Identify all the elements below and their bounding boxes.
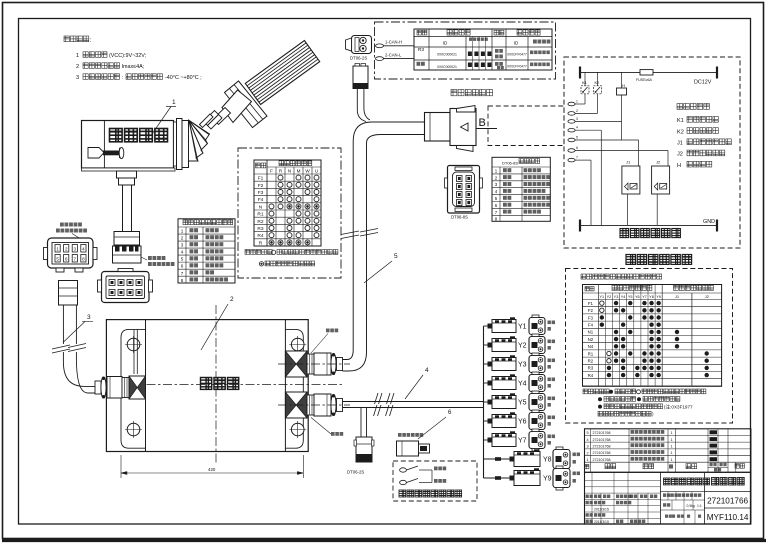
svg-text:3: 3 <box>181 243 184 248</box>
valve body title 电液换挡阀体 <box>626 255 692 265</box>
CAN stub wire 1-CAN-H <box>376 40 415 48</box>
BOM parts list table <box>585 429 751 473</box>
control box lower right connector <box>278 392 350 418</box>
svg-text:F4: F4 <box>588 323 594 328</box>
comm connector node B mark <box>476 117 497 129</box>
svg-text:Y7: Y7 <box>642 295 647 299</box>
leader label 1 for joystick <box>152 99 176 134</box>
leader label 6 for 4wd plug <box>418 410 452 439</box>
svg-text::: : <box>122 75 124 81</box>
svg-text:F1: F1 <box>258 176 264 182</box>
solenoid valve Y4 connector and coil <box>484 372 556 394</box>
svg-text:F3: F3 <box>588 315 594 320</box>
switch K1 brake input <box>581 72 589 104</box>
svg-text:7: 7 <box>181 271 184 276</box>
svg-text:R1: R1 <box>588 351 594 356</box>
terminal wiring to relays and ground <box>575 130 668 225</box>
buzzer H <box>617 72 627 140</box>
control box bottom dimension <box>121 455 303 478</box>
solenoid valve Y5 connector and coil <box>484 391 556 413</box>
svg-text:1: 1 <box>181 229 184 234</box>
control box left circular connector <box>95 376 146 399</box>
svg-text:4: 4 <box>181 250 184 255</box>
svg-text:Y1: Y1 <box>599 295 604 299</box>
svg-text:Y1: Y1 <box>518 324 527 331</box>
handle harness pin definition table <box>178 219 235 283</box>
handle output table footnotes <box>245 250 338 266</box>
DT06-2S lower connector <box>354 437 374 462</box>
handle output signal table <box>254 160 321 246</box>
svg-text:2: 2 <box>76 64 79 70</box>
svg-text:2011/3/15: 2011/3/15 <box>594 508 609 512</box>
svg-text:2: 2 <box>230 296 234 303</box>
connector tag note upper <box>311 329 338 354</box>
joystick neck cone <box>222 90 252 123</box>
diagnostic drop wire to DT06-2S lower <box>361 408 367 438</box>
svg-text:0.9kg: 0.9kg <box>687 504 695 508</box>
solenoid logic table <box>583 285 722 387</box>
svg-text:Y6: Y6 <box>518 419 527 426</box>
svg-text:1: 1 <box>576 100 578 104</box>
control box upper right connector <box>278 351 350 377</box>
svg-text:6: 6 <box>576 146 578 150</box>
solenoid valve Y9 connector and coil <box>484 466 581 490</box>
comm interface label 外接通讯接口 <box>451 90 493 96</box>
svg-text:3: 3 <box>76 75 79 81</box>
ground bus GND <box>580 219 717 231</box>
svg-text:Y7: Y7 <box>518 438 527 445</box>
title block texts <box>586 478 749 525</box>
svg-text:Y9: Y9 <box>656 295 661 299</box>
harness W2 vertical run <box>343 141 367 371</box>
svg-text:2011/3/15: 2011/3/15 <box>594 520 609 524</box>
svg-text:F2: F2 <box>258 183 264 189</box>
joystick mounting steps <box>117 171 137 185</box>
svg-text:3: 3 <box>586 445 588 449</box>
vehicle circuit title 外接整车电路 <box>620 229 681 238</box>
svg-text:DT06-2S: DT06-2S <box>350 56 367 61</box>
svg-text:R3: R3 <box>257 226 263 232</box>
svg-text:R4: R4 <box>588 373 594 378</box>
solenoid logic footnotes <box>583 389 706 417</box>
joystick body label text <box>110 129 168 142</box>
svg-text:0X0C000021: 0X0C000021 <box>437 65 457 69</box>
control box wire slot lines <box>134 330 137 374</box>
diagnostic cable wires down to junction <box>357 89 370 122</box>
svg-text:1: 1 <box>586 458 588 462</box>
svg-text:1: 1 <box>670 458 672 462</box>
svg-text:1:1: 1:1 <box>697 504 702 508</box>
svg-text:FUSE≥6A: FUSE≥6A <box>636 78 653 82</box>
DT06-8S wire definition table <box>492 157 550 221</box>
4wd switch connector plug <box>397 441 430 456</box>
svg-text:272101768: 272101768 <box>593 431 611 435</box>
svg-text:MYF110.14: MYF110.14 <box>707 513 749 522</box>
svg-text:5: 5 <box>394 253 398 260</box>
cable break marks on W1 <box>52 344 86 354</box>
svg-text:1: 1 <box>670 431 672 435</box>
svg-text:R3: R3 <box>418 47 424 53</box>
control box outer plate <box>106 320 308 452</box>
svg-text:H: H <box>677 163 681 169</box>
svg-text:Y2: Y2 <box>607 295 612 299</box>
svg-text:DC12V: DC12V <box>694 80 712 86</box>
svg-text:Y4: Y4 <box>518 381 527 388</box>
leader label 3 for handle harness <box>64 314 94 342</box>
joystick stem tube <box>123 185 132 231</box>
svg-text:N: N <box>288 169 291 174</box>
4wd switch interface dashed box <box>393 461 477 501</box>
svg-text:R: R <box>259 240 263 246</box>
solenoid valve Y3 connector and coil <box>484 353 556 375</box>
svg-text:1: 1 <box>172 99 176 106</box>
svg-text:J1: J1 <box>677 141 683 147</box>
svg-text:R1: R1 <box>257 212 263 218</box>
electrical notes text block <box>64 36 202 81</box>
svg-text:R2: R2 <box>588 359 594 364</box>
leader label 4 for harness W3 <box>405 367 429 399</box>
connector A label text <box>141 256 175 266</box>
svg-text:8: 8 <box>181 278 184 283</box>
svg-text:1: 1 <box>76 53 79 59</box>
svg-text:272101766: 272101766 <box>707 497 748 506</box>
svg-text:(VCC):9V~32V;: (VCC):9V~32V; <box>109 53 147 59</box>
joystick grip collar <box>225 81 268 128</box>
svg-text:Imax≤4A;: Imax≤4A; <box>122 64 145 70</box>
diagnostic cable backshell <box>353 64 368 89</box>
solenoid valve Y7 connector and coil <box>484 429 556 451</box>
svg-text:272101768: 272101768 <box>593 438 611 442</box>
power bus DC12V <box>580 67 717 86</box>
svg-text:K1: K1 <box>677 118 684 124</box>
left 8-pin plug housing label <box>56 223 87 239</box>
cable break marks on W2 <box>341 229 378 239</box>
handle harness cable W1 curve to control box <box>63 352 95 393</box>
svg-text:Y2: Y2 <box>518 343 527 350</box>
svg-text:7: 7 <box>576 156 578 160</box>
svg-text:0X0CFF0477: 0X0CFF0477 <box>507 53 527 57</box>
svg-text:N4: N4 <box>588 344 594 349</box>
control box label text <box>201 378 239 390</box>
svg-text:DT06-8S: DT06-8S <box>451 215 468 220</box>
control box side rounded contours <box>121 329 303 448</box>
svg-text:1-CAN-H: 1-CAN-H <box>385 40 402 45</box>
symbol legend text block <box>677 104 731 169</box>
svg-text:N1: N1 <box>588 330 594 335</box>
svg-text:5: 5 <box>586 431 588 435</box>
DT06-2S diagnostic connector top <box>346 36 372 54</box>
comm connector dashed box <box>488 106 564 146</box>
joystick bellows boot <box>189 120 210 161</box>
svg-text:4: 4 <box>425 367 429 374</box>
title block main frame <box>585 472 751 524</box>
svg-text:ID: ID <box>443 41 448 46</box>
svg-text:Y5: Y5 <box>518 400 527 407</box>
switch K2 parking brake input <box>594 72 602 113</box>
left 8-pin plug housing <box>44 238 98 272</box>
solenoid valve Y6 connector and coil <box>484 410 556 432</box>
svg-text:DT06-2S: DT06-2S <box>347 470 364 475</box>
svg-text:R4: R4 <box>257 233 263 239</box>
fuse FUSE>=6A <box>636 70 653 82</box>
svg-text:1: 1 <box>670 438 672 442</box>
control box flange bolt holes <box>125 336 306 438</box>
relay J2 reverse lamp <box>652 160 670 226</box>
svg-text:420: 420 <box>208 467 216 472</box>
svg-text:F2: F2 <box>588 308 594 313</box>
svg-text:2: 2 <box>576 109 578 113</box>
control box centerlines <box>97 305 343 463</box>
svg-text:F: F <box>270 169 273 174</box>
external vehicle circuit dashed box <box>564 57 740 248</box>
svg-text:M: M <box>297 169 301 174</box>
DT06-2S top label <box>350 56 367 61</box>
svg-text:3: 3 <box>576 117 578 121</box>
svg-text:4: 4 <box>586 438 588 442</box>
svg-text:Y9: Y9 <box>543 476 552 483</box>
svg-text:N2: N2 <box>588 337 594 342</box>
svg-text:J2: J2 <box>677 152 683 158</box>
joystick body box <box>82 119 189 172</box>
svg-text:N: N <box>259 204 263 210</box>
svg-text:U: U <box>315 169 318 174</box>
svg-text:0X0C000021: 0X0C000021 <box>437 53 457 57</box>
svg-text:DT06-8S: DT06-8S <box>502 160 518 165</box>
svg-text:Y8: Y8 <box>543 457 552 464</box>
svg-text:Y6: Y6 <box>635 295 640 299</box>
harness W3 horizontal run <box>343 402 484 408</box>
svg-text:Y5: Y5 <box>628 295 633 299</box>
DT06-2S lower label <box>347 470 364 475</box>
svg-text:1: 1 <box>670 444 672 448</box>
harness W2 top bend to comm connector <box>353 122 424 143</box>
svg-text:272101768: 272101768 <box>593 451 611 455</box>
svg-text:K2: K2 <box>677 129 684 135</box>
solenoid valve Y2 connector and coil <box>484 334 556 356</box>
solenoid logic table title <box>581 274 662 279</box>
cable break marks on W3 <box>374 393 395 416</box>
svg-text:5: 5 <box>576 136 578 140</box>
svg-text:F3: F3 <box>258 190 264 196</box>
DT06-8S connector label <box>451 215 468 220</box>
svg-text:272101768: 272101768 <box>593 444 611 448</box>
svg-text:Y8: Y8 <box>649 295 654 299</box>
svg-text:(注:0X3F1977: (注:0X3F1977 <box>664 404 693 411</box>
vehicle terminals 1-7 <box>568 100 578 162</box>
svg-text:Y3: Y3 <box>518 362 527 369</box>
svg-text:R2: R2 <box>257 219 263 225</box>
svg-text:B: B <box>479 117 486 129</box>
svg-text:W: W <box>305 169 310 174</box>
svg-text:4: 4 <box>576 126 578 130</box>
CAN table dash-dot enclosure <box>375 22 556 79</box>
leader label 2 for control box <box>201 296 234 350</box>
svg-text:ID: ID <box>514 41 519 46</box>
solenoid logic dashed enclosure <box>566 269 733 424</box>
svg-text:2: 2 <box>181 236 184 241</box>
svg-text:Y4: Y4 <box>621 295 626 299</box>
svg-text:F1: F1 <box>588 301 594 306</box>
svg-text:1: 1 <box>670 451 672 455</box>
terminal wiring to switches <box>575 104 622 121</box>
4wd box title text <box>399 490 462 497</box>
svg-text:2-CAN-L: 2-CAN-L <box>385 52 402 57</box>
CAN stub wire 2-CAN-L <box>376 52 415 60</box>
DT06-8S vehicle connector <box>445 166 483 214</box>
valve supply bus wire <box>483 326 485 478</box>
handle harness cable W1 left drop <box>59 281 78 345</box>
joystick adjust screw <box>88 147 124 158</box>
svg-text:-40°C ~+80°C ;: -40°C ~+80°C ; <box>165 75 202 81</box>
connector tag note lower <box>311 418 343 436</box>
4wd switch symbols <box>400 466 447 485</box>
svg-text:R3: R3 <box>588 366 594 371</box>
joystick shaft and rings <box>200 108 231 130</box>
svg-text:F4: F4 <box>258 197 264 203</box>
leader label 5 for harness W2 <box>364 253 398 283</box>
comm connector B body <box>425 106 477 152</box>
svg-text:H: H <box>622 83 625 88</box>
svg-text:2: 2 <box>586 451 588 455</box>
joystick stem connector block <box>113 232 142 264</box>
CAN message table <box>414 29 552 70</box>
solenoid valve Y8 connector and coil <box>484 447 581 471</box>
relay J1 neutral start <box>622 160 640 226</box>
svg-text:5: 5 <box>181 257 184 262</box>
handle output table dash-dot enclosure <box>238 148 341 278</box>
svg-text:GND: GND <box>703 219 715 225</box>
svg-text:3: 3 <box>87 314 91 321</box>
svg-text:6: 6 <box>181 264 184 269</box>
solenoid valve Y1 connector and coil <box>484 315 556 337</box>
4wd plug label <box>398 433 423 437</box>
svg-text:Y3: Y3 <box>614 295 619 299</box>
joystick handle grip (hatched) <box>245 41 319 105</box>
svg-text:0X0CFF0477: 0X0CFF0477 <box>507 65 527 69</box>
svg-text:272101768: 272101768 <box>593 458 611 462</box>
connector A 8-pin socket <box>98 269 153 303</box>
